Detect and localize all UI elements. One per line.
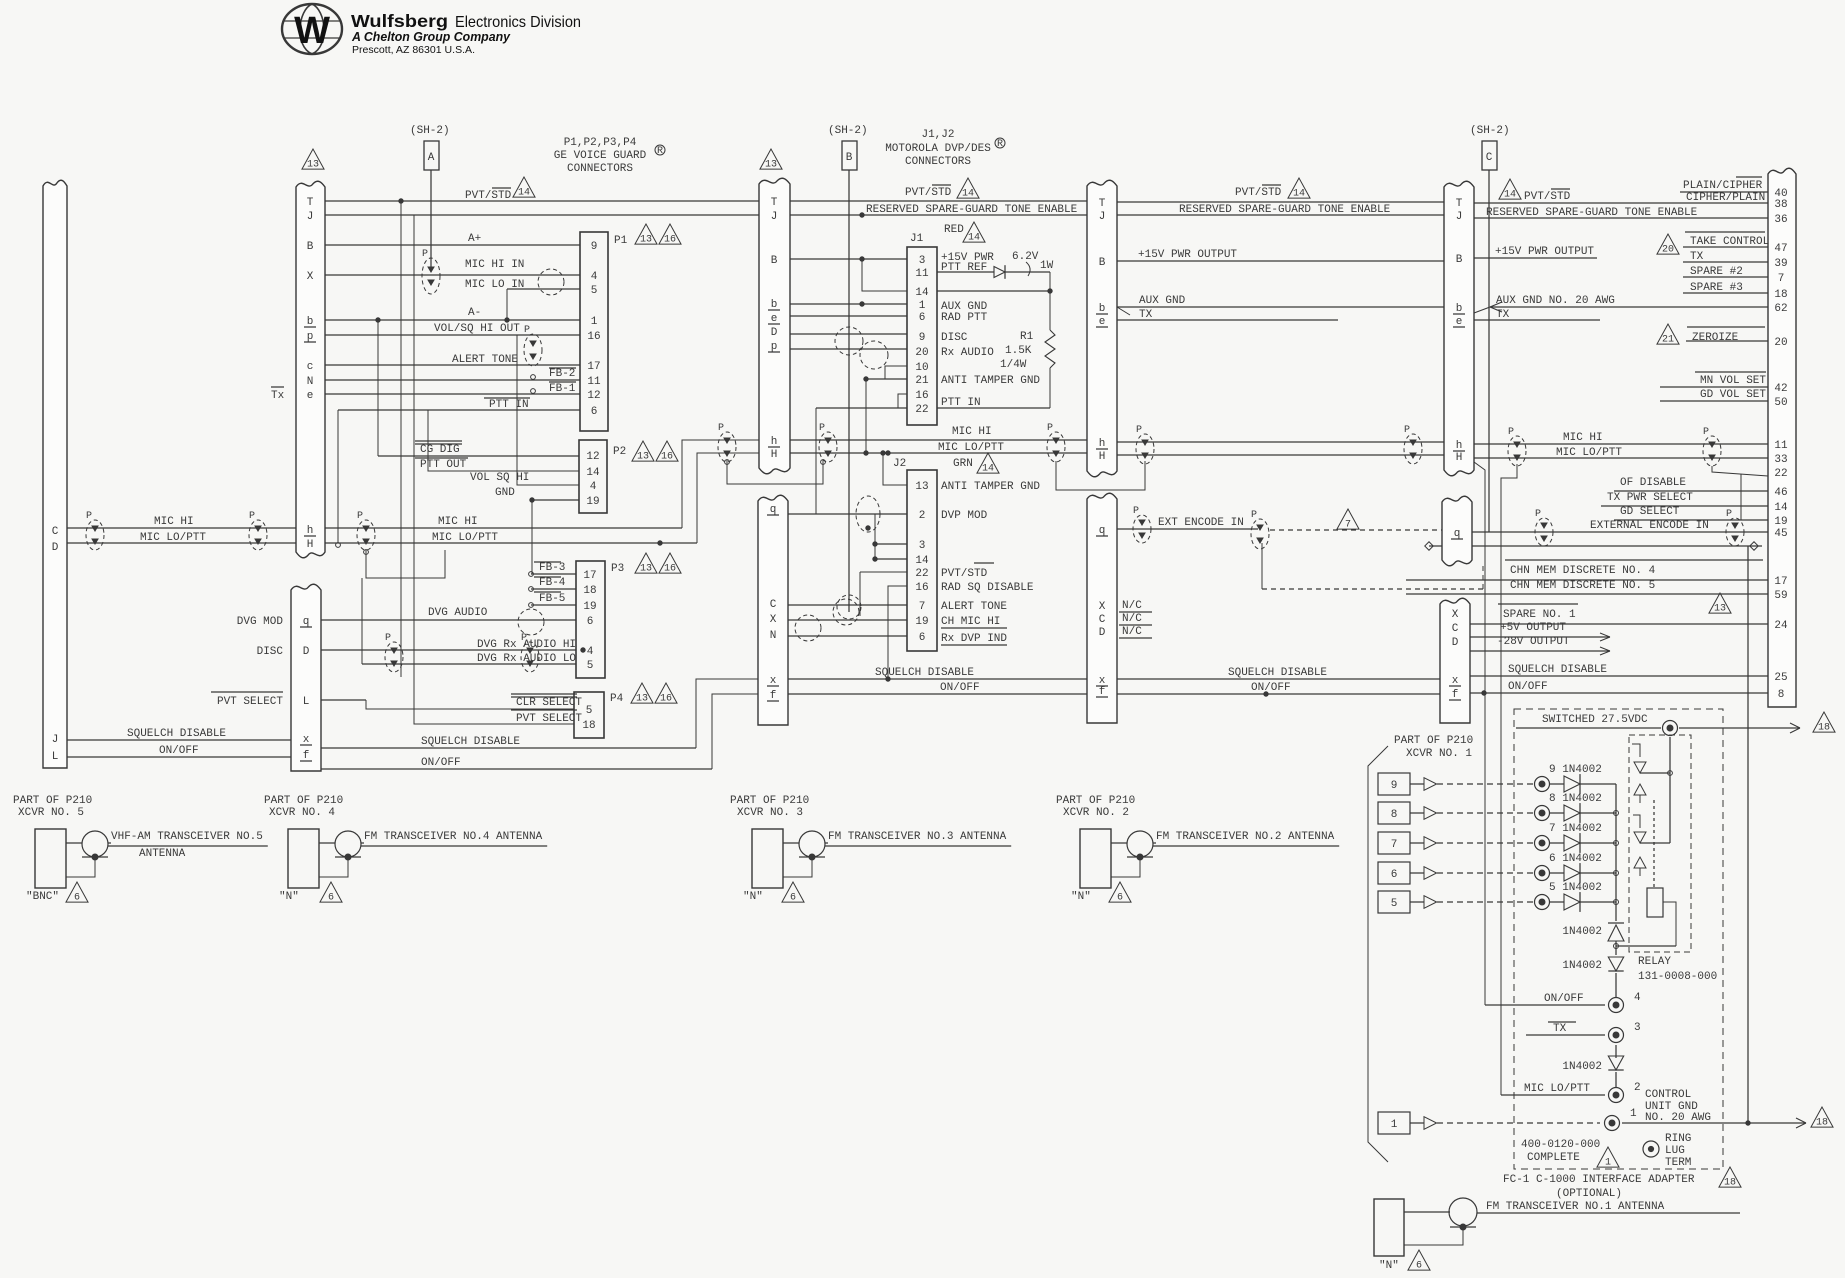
svg-text:ANTI TAMPER GND: ANTI TAMPER GND — [941, 481, 1040, 493]
antenna XCVR1 — [1374, 1198, 1740, 1272]
svg-text:1N4002: 1N4002 — [1562, 960, 1602, 972]
svg-text:P: P — [1136, 425, 1142, 436]
svg-text:N/C: N/C — [1122, 600, 1142, 612]
svg-text:ZEROIZE: ZEROIZE — [1692, 332, 1739, 344]
svg-text:TX: TX — [1690, 251, 1704, 263]
connector bar 1 upper — [296, 181, 325, 558]
svg-text:10: 10 — [915, 362, 928, 374]
svg-text:MIC LO/PTT: MIC LO/PTT — [1556, 447, 1622, 459]
svg-text:PART OF P210: PART OF P210 — [1056, 795, 1135, 807]
svg-text:7: 7 — [1778, 273, 1785, 285]
svg-text:RESERVED SPARE-GUARD TONE ENAB: RESERVED SPARE-GUARD TONE ENABLE — [1486, 207, 1698, 219]
svg-text:19: 19 — [583, 601, 596, 613]
svg-text:AUX GND NO. 20 AWG: AUX GND NO. 20 AWG — [1496, 295, 1615, 307]
svg-text:11: 11 — [1774, 440, 1788, 452]
svg-text:R1: R1 — [1020, 331, 1034, 343]
connector bar 4 q segment — [1442, 496, 1472, 566]
svg-text:FM TRANSCEIVER NO.2 ANTENNA: FM TRANSCEIVER NO.2 ANTENNA — [1156, 831, 1335, 843]
Tx label — [271, 387, 285, 402]
wire PLAIN/CIPHER pin40 — [1680, 177, 1768, 192]
label CONTROL UNIT GND — [1645, 1089, 1711, 1124]
svg-text:47: 47 — [1774, 243, 1787, 255]
wire N row — [325, 379, 533, 381]
svg-text:6: 6 — [328, 893, 334, 904]
svg-text:J: J — [771, 211, 778, 223]
svg-text:C: C — [52, 526, 59, 538]
svg-text:131-0008-000: 131-0008-000 — [1638, 971, 1717, 983]
svg-text:P: P — [357, 511, 363, 522]
svg-text:4: 4 — [591, 271, 598, 283]
svg-text:FB-4: FB-4 — [539, 577, 566, 589]
svg-text:1W: 1W — [1040, 260, 1054, 272]
svg-text:D: D — [303, 646, 310, 658]
pair symbol on A-box vertical — [422, 249, 440, 294]
svg-text:LUG: LUG — [1665, 1145, 1685, 1157]
svg-text:W: W — [294, 10, 330, 52]
svg-text:T: T — [307, 197, 314, 209]
triangle 7 — [1337, 509, 1359, 531]
svg-text:D: D — [1099, 627, 1106, 639]
svg-text:L: L — [52, 751, 59, 763]
svg-text:h: h — [771, 436, 778, 448]
Wulfsberg globe logo — [282, 4, 342, 54]
wire ON/OFF bar3-bar4 — [1117, 682, 1440, 696]
svg-text:p: p — [771, 341, 778, 353]
svg-text:1: 1 — [1605, 1158, 1611, 1169]
dashed box FC-1 adapter — [1514, 709, 1723, 1169]
svg-text:P: P — [1047, 423, 1053, 434]
svg-text:42: 42 — [1774, 383, 1787, 395]
svg-text:6: 6 — [919, 632, 926, 644]
svg-text:FM TRANSCEIVER NO.4 ANTENNA: FM TRANSCEIVER NO.4 ANTENNA — [364, 831, 543, 843]
svg-text:XCVR NO. 1: XCVR NO. 1 — [1406, 748, 1472, 760]
svg-text:18: 18 — [1816, 1118, 1828, 1129]
svg-text:P: P — [1251, 510, 1257, 521]
wire SQUELCH DISABLE far left — [67, 728, 291, 740]
svg-text:17: 17 — [583, 570, 596, 582]
svg-text:16: 16 — [660, 694, 672, 705]
wire AUX GND mid — [1117, 295, 1444, 315]
wire J1.16 stub — [898, 394, 907, 408]
svg-text:(SH-2): (SH-2) — [828, 125, 868, 137]
wire SQUELCH DISABLE bar4-right — [1470, 664, 1768, 676]
connector bar far-left (XCVR5 plug) — [43, 180, 67, 768]
wire VOL/SQ HI OUT — [325, 323, 580, 335]
svg-text:P: P — [385, 633, 391, 644]
terminal and diode 1N4002 ch 8 — [1535, 793, 1619, 823]
svg-text:PVT SELECT: PVT SELECT — [217, 696, 283, 708]
svg-text:1: 1 — [591, 316, 598, 328]
wire MIC LO IN — [465, 279, 580, 322]
svg-text:3: 3 — [1634, 1022, 1641, 1034]
wire J1.22 PTT IN right — [937, 407, 1050, 409]
wire SWITCHED 27.5VDC — [1516, 714, 1800, 736]
wire pin22 stub — [1712, 466, 1768, 476]
shield drop under bar4 — [1474, 462, 1517, 1095]
svg-text:R: R — [657, 146, 663, 157]
GE Voice Guard header — [554, 137, 665, 175]
connector bar 2 upper — [759, 178, 790, 474]
wire DVG AUDIO — [237, 607, 576, 628]
svg-text:FM TRANSCEIVER NO.1 ANTENNA: FM TRANSCEIVER NO.1 ANTENNA — [1486, 1201, 1665, 1213]
svg-text:1N4002: 1N4002 — [1562, 926, 1602, 938]
wire p to J1.20 — [790, 348, 907, 350]
svg-text:CHN MEM DISCRETE NO. 5: CHN MEM DISCRETE NO. 5 — [1510, 580, 1655, 592]
svg-text:17: 17 — [587, 361, 600, 373]
wire MIC rows bar3-bar4 — [1117, 442, 1444, 455]
svg-text:4: 4 — [587, 646, 594, 658]
wire PVT/STD row T — [325, 199, 1768, 203]
svg-text:FB-3: FB-3 — [539, 562, 565, 574]
svg-text:Tx: Tx — [271, 390, 285, 402]
svg-text:ON/OFF: ON/OFF — [940, 682, 980, 694]
pair left of bar2 — [718, 423, 736, 462]
svg-text:(SH-2): (SH-2) — [1470, 125, 1510, 137]
svg-text:18: 18 — [582, 720, 595, 732]
svg-text:PTT IN: PTT IN — [941, 397, 981, 409]
wire J1.10 stub — [885, 366, 907, 379]
svg-text:20: 20 — [1774, 337, 1787, 349]
svg-text:45: 45 — [1774, 528, 1787, 540]
wire +15V PWR OUTPUT mid — [1117, 249, 1444, 261]
wire J2.13 — [881, 451, 907, 485]
svg-text:PTT IN: PTT IN — [489, 399, 529, 411]
svg-text:5: 5 — [591, 285, 598, 297]
svg-text:"N": "N" — [279, 891, 299, 903]
svg-text:N/C: N/C — [1122, 613, 1142, 625]
svg-text:H: H — [1456, 452, 1463, 464]
svg-text:MIC LO/PTT: MIC LO/PTT — [938, 442, 1004, 454]
svg-text:CLR SELECT: CLR SELECT — [516, 697, 582, 709]
note (SH-2) box A — [410, 125, 450, 268]
svg-text:P: P — [1404, 425, 1410, 436]
triangle 13 right — [1709, 593, 1731, 615]
triangle 18 switched — [1813, 712, 1835, 734]
label PVT/STD 2 — [905, 178, 979, 200]
svg-text:MIC HI: MIC HI — [952, 426, 992, 438]
svg-text:1: 1 — [1630, 1108, 1637, 1120]
svg-text:FB-2: FB-2 — [549, 368, 575, 380]
svg-text:SQUELCH DISABLE: SQUELCH DISABLE — [1228, 667, 1327, 679]
label PVT/STD 3 — [1235, 178, 1310, 200]
svg-text:13: 13 — [915, 481, 928, 493]
svg-text:CONNECTORS: CONNECTORS — [905, 156, 971, 168]
antenna XCVR3 — [730, 795, 1011, 904]
svg-text:TERM: TERM — [1665, 1157, 1691, 1169]
shield loop under bar3 — [1056, 461, 1145, 490]
svg-text:6.2V: 6.2V — [1012, 251, 1039, 263]
svg-text:C: C — [770, 599, 777, 611]
svg-text:+5V OUTPUT: +5V OUTPUT — [1500, 622, 1566, 634]
svg-text:9: 9 — [919, 332, 926, 344]
svg-text:9: 9 — [591, 241, 598, 253]
svg-text:SWITCHED 27.5VDC: SWITCHED 27.5VDC — [1542, 714, 1648, 726]
svg-text:17: 17 — [1774, 576, 1787, 588]
logo text — [351, 11, 581, 56]
wire SQUELCH DISABLE bar1-bar2 — [321, 679, 758, 748]
svg-text:EXT ENCODE IN: EXT ENCODE IN — [1158, 517, 1244, 529]
wire GD VOL SET — [1660, 389, 1768, 401]
svg-text:1: 1 — [1391, 1119, 1398, 1131]
zener CR 6.2V 1W — [937, 251, 1054, 279]
wire SQUELCH DISABLE bar2-bar3 — [788, 667, 1087, 681]
connector bar 3 lower — [1087, 493, 1117, 723]
svg-text:PART OF P210: PART OF P210 — [730, 795, 809, 807]
svg-text:12: 12 — [587, 390, 600, 402]
svg-text:20: 20 — [1662, 245, 1674, 256]
svg-text:P: P — [1535, 509, 1541, 520]
wire PTT IN — [336, 398, 580, 547]
note (SH-2) box C — [1470, 125, 1510, 532]
svg-text:J: J — [307, 211, 314, 223]
svg-text:16: 16 — [664, 235, 676, 246]
svg-text:b: b — [771, 299, 778, 311]
svg-text:ON/OFF: ON/OFF — [1251, 682, 1291, 694]
wire CHN MEM DISCRETE NO 5 — [1406, 580, 1768, 594]
svg-text:ON/OFF: ON/OFF — [1544, 993, 1584, 1005]
pair right of bar2 — [819, 423, 837, 462]
svg-text:6: 6 — [587, 616, 594, 628]
pair far left — [86, 511, 104, 550]
label RESERVED 3 — [1179, 204, 1391, 216]
pair right of bar4 — [1508, 427, 1526, 466]
wire SQUELCH DISABLE bar3-bar4 — [1117, 667, 1440, 679]
pair symbol VOL/ALERT — [524, 325, 542, 366]
svg-text:13: 13 — [637, 452, 649, 463]
wire FB-3 — [529, 562, 576, 576]
wire A- — [325, 307, 580, 320]
wire RESERVED row J — [325, 213, 1768, 218]
vertical link pins 46-19 — [1740, 474, 1742, 520]
svg-text:C: C — [1486, 152, 1493, 164]
svg-text:ON/OFF: ON/OFF — [1508, 681, 1548, 693]
svg-text:R: R — [997, 139, 1003, 150]
svg-text:RESERVED SPARE-GUARD TONE ENAB: RESERVED SPARE-GUARD TONE ENABLE — [866, 204, 1078, 216]
svg-text:XCVR NO. 4: XCVR NO. 4 — [269, 807, 335, 819]
svg-text:e: e — [1456, 316, 1463, 328]
triangle 13 over bar1 — [302, 149, 324, 171]
Motorola DVP/DES header — [885, 129, 1005, 168]
wire TX pin39 — [1683, 251, 1768, 263]
wire N to J2.6 — [788, 635, 907, 637]
svg-text:RING: RING — [1665, 1133, 1691, 1145]
svg-text:6 1N4002: 6 1N4002 — [1549, 853, 1602, 865]
wire X to J2.19 — [788, 619, 907, 621]
svg-text:DVG Rx AUDIO LO: DVG Rx AUDIO LO — [477, 653, 576, 665]
label RESERVED 2 — [866, 204, 1078, 216]
wire DVG Rx AUDIO LO — [362, 578, 576, 665]
wire TX PWR SELECT — [1601, 492, 1768, 506]
wire AUX GND NO 20 AWG — [1474, 295, 1768, 313]
pair after bar1 — [357, 511, 375, 550]
wire CLR SELECT — [366, 694, 582, 709]
connector P4 — [574, 683, 677, 738]
svg-text:14: 14 — [982, 464, 994, 475]
antenna XCVR5 — [13, 795, 268, 904]
svg-text:e: e — [307, 390, 314, 402]
svg-text:T: T — [1099, 198, 1106, 210]
terminal 1 control gnd — [1605, 1108, 1807, 1131]
wire TX mid — [1117, 309, 1338, 321]
svg-text:39: 39 — [1774, 258, 1787, 270]
svg-text:TX: TX — [1553, 1023, 1567, 1035]
pair ext encode left — [1133, 506, 1151, 543]
svg-text:-28V OUTPUT: -28V OUTPUT — [1497, 636, 1570, 648]
pair before bar1 — [249, 511, 267, 550]
pair right of bar3 — [1136, 425, 1154, 464]
vertical wire J feed — [414, 215, 574, 724]
svg-text:SPARE NO. 1: SPARE NO. 1 — [1503, 609, 1576, 621]
svg-text:B: B — [771, 255, 778, 267]
svg-text:H: H — [1099, 451, 1106, 463]
label RELAY — [1638, 956, 1717, 983]
wire CG DIG — [378, 441, 579, 456]
channel box 8 — [1378, 802, 1534, 824]
svg-text:b: b — [307, 316, 314, 328]
svg-text:D: D — [52, 542, 59, 554]
svg-text:FB-1: FB-1 — [549, 383, 576, 395]
svg-text:RESERVED SPARE-GUARD TONE ENAB: RESERVED SPARE-GUARD TONE ENABLE — [1179, 204, 1391, 216]
svg-text:19: 19 — [915, 616, 928, 628]
diode bus vertical — [1615, 784, 1617, 921]
svg-text:TX: TX — [1496, 309, 1510, 321]
wire A+ — [325, 233, 580, 245]
svg-text:A: A — [428, 152, 435, 164]
svg-text:PVT/STD: PVT/STD — [1235, 187, 1282, 199]
svg-text:6: 6 — [1391, 869, 1398, 881]
svg-text:PART OF P210: PART OF P210 — [264, 795, 343, 807]
svg-text:14: 14 — [1293, 189, 1305, 200]
svg-text:62: 62 — [1774, 303, 1787, 315]
svg-text:ON/OFF: ON/OFF — [159, 745, 199, 757]
svg-text:f: f — [303, 750, 310, 762]
label CIPHER/PLAIN pin38 — [1686, 192, 1765, 204]
svg-text:q: q — [303, 616, 310, 628]
connector P2 — [579, 440, 678, 513]
svg-text:ALERT TONE: ALERT TONE — [452, 354, 518, 366]
svg-text:46: 46 — [1774, 487, 1787, 499]
svg-text:GE VOICE GUARD: GE VOICE GUARD — [554, 150, 647, 162]
pair ext right 2 — [1726, 509, 1744, 546]
wire J1.21 — [864, 377, 907, 455]
channel box 7 — [1378, 832, 1534, 854]
connector bar 3 upper — [1087, 180, 1117, 477]
svg-text:PVT/STD: PVT/STD — [465, 190, 512, 202]
svg-text:14: 14 — [518, 188, 530, 199]
svg-text:CH MIC HI: CH MIC HI — [941, 616, 1000, 628]
svg-text:q: q — [1454, 528, 1461, 540]
svg-text:MIC LO IN: MIC LO IN — [465, 279, 524, 291]
svg-text:7: 7 — [1391, 839, 1398, 851]
svg-text:22: 22 — [1774, 468, 1787, 480]
svg-text:13: 13 — [765, 160, 777, 171]
wire DVG Rx AUDIO HI — [257, 639, 586, 658]
svg-text:X: X — [1099, 601, 1106, 613]
svg-text:P: P — [718, 423, 724, 434]
svg-text:OF DISABLE: OF DISABLE — [1620, 477, 1686, 489]
wire FB-5 — [529, 592, 576, 607]
pair circles J1 — [835, 327, 888, 369]
pair left of bar4 — [1404, 425, 1422, 464]
svg-text:3: 3 — [919, 540, 926, 552]
svg-text:P2: P2 — [613, 446, 626, 458]
connector J1 — [907, 233, 937, 425]
svg-text:DVP MOD: DVP MOD — [941, 510, 988, 522]
svg-text:e: e — [771, 313, 778, 325]
svg-text:7: 7 — [1345, 520, 1351, 531]
svg-text:P: P — [524, 325, 530, 336]
svg-text:7 1N4002: 7 1N4002 — [1549, 823, 1602, 835]
label FC-1 C-1000 — [1503, 1167, 1741, 1200]
svg-text:CIPHER/PLAIN: CIPHER/PLAIN — [1686, 192, 1765, 204]
triangle 21 ZEROIZE — [1657, 324, 1768, 346]
wire PVT SELECT to P4 — [511, 710, 582, 725]
resistor R1 1.5K 1/4W — [1000, 272, 1055, 408]
wire SPARE #2 — [1683, 266, 1768, 278]
connector bar 4 upper — [1444, 181, 1474, 476]
pair ext encode mid — [1251, 510, 1269, 549]
svg-text:PART OF P210: PART OF P210 — [1394, 735, 1473, 747]
triangle 13 over bar2 — [760, 149, 782, 171]
wire +15V PWR OUTPUT right — [1474, 246, 1597, 258]
wire J2.16 to squelch — [888, 586, 907, 679]
svg-text:"BNC": "BNC" — [26, 891, 59, 903]
svg-text:CG DIG: CG DIG — [420, 444, 460, 456]
svg-text:H: H — [307, 539, 314, 551]
svg-text:MIC LO/PTT: MIC LO/PTT — [140, 532, 206, 544]
svg-text:PVT SELECT: PVT SELECT — [516, 713, 582, 725]
svg-text:ANTENNA: ANTENNA — [139, 848, 186, 860]
svg-text:18: 18 — [583, 585, 596, 597]
wire MIC HI IN — [325, 259, 580, 275]
svg-text:16: 16 — [915, 390, 928, 402]
label 400-0120-000 COMPLETE — [1521, 1139, 1619, 1169]
svg-text:N: N — [770, 630, 777, 642]
svg-text:16: 16 — [661, 452, 673, 463]
svg-text:RAD PTT: RAD PTT — [941, 312, 988, 324]
svg-text:h: h — [1456, 440, 1463, 452]
wire e row — [325, 393, 533, 395]
wire TX right stub — [1474, 309, 1600, 321]
svg-text:50: 50 — [1774, 397, 1787, 409]
svg-text:PART OF P210: PART OF P210 — [13, 795, 92, 807]
svg-text:6: 6 — [74, 893, 80, 904]
svg-text:L: L — [303, 696, 310, 708]
svg-text:12: 12 — [586, 451, 599, 463]
vertical switched down — [1669, 737, 1671, 843]
svg-text:"N": "N" — [1071, 891, 1091, 903]
svg-text:PVT/STD: PVT/STD — [1524, 191, 1571, 203]
svg-text:Prescott, AZ 86301 U.S.A.: Prescott, AZ 86301 U.S.A. — [352, 44, 475, 56]
right edge pin bar P210 — [1768, 168, 1796, 707]
svg-text:D: D — [771, 327, 778, 339]
svg-text:J: J — [52, 734, 59, 746]
svg-text:P: P — [1726, 509, 1732, 520]
svg-text:P: P — [422, 249, 428, 260]
svg-text:RAD SQ DISABLE: RAD SQ DISABLE — [941, 582, 1034, 594]
wire ALERT TONE — [325, 354, 580, 366]
label RESERVED 4 — [1486, 207, 1698, 219]
svg-text:VOL SQ HI: VOL SQ HI — [470, 472, 529, 484]
svg-text:P: P — [819, 423, 825, 434]
wire MIC HI bar1-bar2 — [325, 440, 759, 528]
svg-text:+15V PWR OUTPUT: +15V PWR OUTPUT — [1495, 246, 1594, 258]
svg-text:p: p — [307, 331, 314, 343]
svg-text:14: 14 — [1774, 502, 1788, 514]
svg-text:5: 5 — [587, 660, 594, 672]
svg-text:B: B — [846, 152, 853, 164]
svg-text:9 1N4002: 9 1N4002 — [1549, 764, 1602, 776]
